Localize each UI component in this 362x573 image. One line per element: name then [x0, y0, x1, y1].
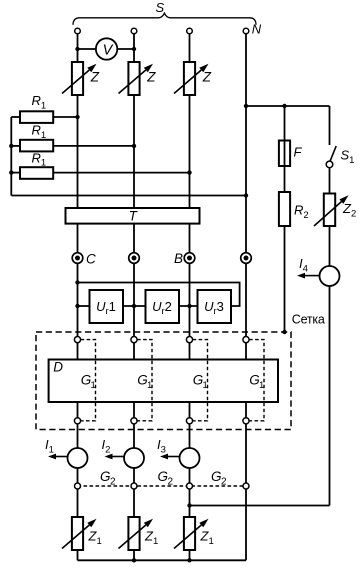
svg-text:Сетка: Сетка — [292, 313, 325, 327]
svg-text:Z: Z — [202, 69, 212, 84]
svg-text:D: D — [53, 360, 63, 375]
svg-text:B: B — [174, 251, 183, 266]
svg-text:G: G — [158, 469, 169, 484]
svg-text:Z: Z — [90, 69, 100, 84]
svg-text:C: C — [86, 251, 96, 266]
svg-text:F: F — [294, 145, 303, 160]
svg-text:G: G — [211, 469, 222, 484]
svg-text:S: S — [155, 0, 164, 15]
svg-text:V: V — [103, 42, 114, 58]
svg-text:G: G — [100, 469, 111, 484]
svg-text:N: N — [252, 22, 262, 37]
svg-text:Z: Z — [146, 69, 156, 84]
